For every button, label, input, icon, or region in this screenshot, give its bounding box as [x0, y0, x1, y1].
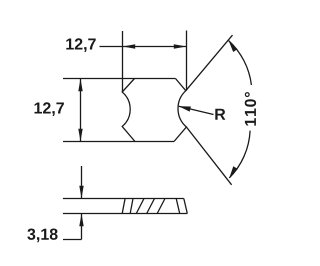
node thickness dimension text 3,18 — [27, 229, 57, 243]
wire hatch stroke 3 — [157, 199, 165, 214]
node angle text 110 degrees — [245, 92, 256, 126]
node left dimension up arrowhead — [78, 79, 82, 92]
wire side view left bevel edge — [122, 199, 125, 214]
node top dimension right arrowhead — [174, 44, 187, 48]
node left dimension text 12,7 — [35, 102, 64, 116]
wire lower 110-degree wedge line — [186, 127, 231, 185]
wire left vertical dimension line — [80, 79, 82, 142]
wire 3,18 upper arrow stem — [81, 166, 83, 199]
wire 3,18 lower arrow stem and leader — [63, 214, 82, 240]
wire hatch stroke 2 — [147, 199, 155, 214]
node R leader arrowhead — [179, 106, 191, 111]
wire side view bottom line — [63, 213, 187, 215]
wire side view left bevel inner line — [130, 199, 133, 214]
wire hatch stroke 1 — [136, 199, 144, 214]
wire upper 110-degree wedge line — [186, 35, 233, 91]
node radius label R — [215, 109, 225, 120]
node top dimension left arrowhead — [123, 44, 136, 48]
wire top dimension line with text leader — [100, 46, 187, 48]
wire bottom edge line with left extension — [63, 141, 174, 143]
node left dimension down arrowhead — [78, 129, 82, 142]
wire side view right bevel edge — [184, 199, 188, 214]
wire 110-degree arc lower segment — [229, 131, 250, 178]
node top dimension text 12,7 — [66, 38, 95, 52]
node 110 arc lower arrowhead — [229, 166, 238, 178]
wire R leader line — [179, 106, 214, 114]
node 3,18 up arrowhead — [79, 214, 83, 227]
wire 110-degree arc upper segment — [229, 41, 252, 85]
wire left extension line of top dimension — [122, 31, 124, 92]
node right profile of insert — [174, 79, 186, 142]
node 110 arc upper arrowhead — [229, 41, 238, 52]
wire right extension line of top dimension — [186, 31, 188, 91]
node left profile of insert — [122, 79, 135, 142]
wire top edge line with left extension — [63, 78, 176, 80]
node 3,18 down arrowhead — [79, 186, 83, 199]
wire side view top line — [63, 198, 184, 200]
wire side view right bevel inner line — [176, 199, 180, 214]
